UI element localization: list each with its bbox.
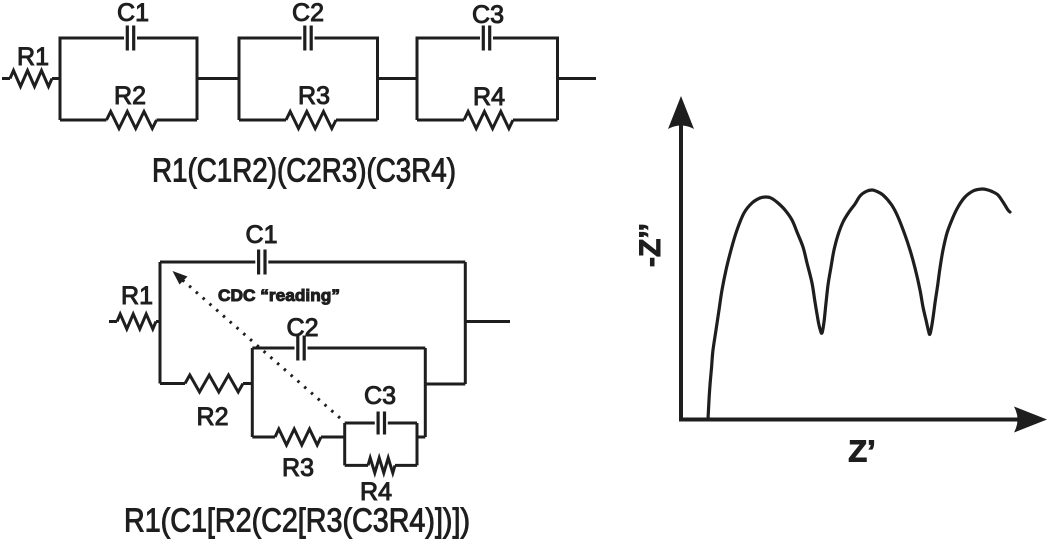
wire: box bottom-left segment xyxy=(60,119,107,122)
svg-text:R1(C1[R2(C2[R3(C3R4)])]): R1(C1[R2(C2[R3(C3R4)])]) xyxy=(124,502,470,539)
svg-text:R3: R3 xyxy=(298,82,330,110)
wire: box3 to box2 right edge connector xyxy=(417,436,425,439)
capacitor C1 xyxy=(126,26,129,51)
wire: box2 to outer right edge connector xyxy=(425,383,465,386)
dotted arrow head xyxy=(173,271,188,285)
wire: box3 top-right segment xyxy=(388,422,417,425)
wire: box2 right edge xyxy=(424,348,427,437)
wire: box1 to box2 xyxy=(197,77,239,80)
wire: outer right edge xyxy=(464,262,467,384)
dotted arrow: CDC reading direction xyxy=(179,277,340,418)
svg-text:R3: R3 xyxy=(282,454,314,482)
wire: R3 to box3 left edge xyxy=(321,436,345,439)
svg-text:Z’: Z’ xyxy=(848,434,876,469)
svg-text:C1: C1 xyxy=(246,221,278,249)
wire: box top-right segment and right edge xyxy=(315,38,378,120)
resistor R3 (bottom circuit) xyxy=(275,429,321,445)
plot y-axis line xyxy=(679,115,683,422)
svg-text:C3: C3 xyxy=(364,382,396,410)
wire: R1 to box1 xyxy=(52,77,60,80)
wire: box bottom-right segment xyxy=(336,119,378,122)
svg-text:CDC “reading”: CDC “reading” xyxy=(218,286,340,305)
wire: box2 left edge xyxy=(251,348,254,437)
wire: R2 to box2 left edge xyxy=(243,382,252,385)
capacitor C2 (bottom circuit) xyxy=(296,336,299,361)
capacitor C3 xyxy=(482,26,485,51)
wire: box bottom-left segment xyxy=(417,119,464,122)
svg-text:-Z’’: -Z’’ xyxy=(634,223,667,267)
svg-text:R1(C1R2)(C2R3)(C3R4): R1(C1R2)(C2R3)(C3R4) xyxy=(152,152,456,189)
resistor R2 (bottom circuit) xyxy=(185,375,243,392)
resistor R4 xyxy=(464,112,513,129)
resistor R4 (bottom circuit) xyxy=(368,458,395,473)
svg-text:R2: R2 xyxy=(114,82,146,110)
capacitor C2 xyxy=(303,26,306,51)
wire: box top-right segment and right edge xyxy=(493,38,558,120)
impedance spectrum curve (three semicircles) xyxy=(708,189,1010,419)
svg-text:C3: C3 xyxy=(472,1,504,29)
wire: box bottom-left segment xyxy=(239,119,286,122)
wire: output lead bottom circuit xyxy=(465,320,510,323)
svg-text:R1: R1 xyxy=(121,282,153,310)
svg-text:C2: C2 xyxy=(287,314,319,342)
wire: input lead left of R1 xyxy=(2,77,10,80)
resistor R2 xyxy=(107,112,157,129)
svg-text:R2: R2 xyxy=(197,403,229,431)
resistor R3 xyxy=(286,112,336,129)
wire: box2 bottom-left segment xyxy=(252,436,275,439)
wire: input lead left of bottom R1 xyxy=(109,320,117,323)
plot x-axis arrow head xyxy=(1014,407,1047,433)
plot x-axis line xyxy=(679,418,1022,422)
wire: box bottom-right segment xyxy=(157,119,198,122)
wire: output lead top circuit xyxy=(558,77,597,80)
svg-text:R4: R4 xyxy=(473,83,505,111)
wire: box3 bottom-left segment xyxy=(345,464,368,467)
wire: outer left edge xyxy=(159,262,162,384)
wire: box3 right edge xyxy=(416,423,419,465)
capacitor C1 (bottom circuit) xyxy=(257,250,260,275)
wire: box left edge and top-left segment (C1||R2 box) xyxy=(60,38,124,120)
resistor R1 (top circuit series input) xyxy=(10,71,52,87)
wire: box3 left edge xyxy=(343,423,346,465)
wire: box2 top-left segment xyxy=(252,347,294,350)
wire: box left edge and top-left segment (C3||R4 box) xyxy=(417,38,480,120)
wire: box2 top-right segment xyxy=(308,347,426,350)
svg-text:C1: C1 xyxy=(117,0,149,27)
capacitor C3 (bottom circuit) xyxy=(377,412,380,435)
wire: box left edge and top-left segment (C2||R3 box) xyxy=(239,38,302,120)
wire: outer top-left segment xyxy=(160,261,255,264)
wire: box3 top-left segment xyxy=(345,422,375,425)
resistor R1 (bottom circuit series input) xyxy=(117,314,156,329)
svg-text:R1: R1 xyxy=(17,43,49,71)
wire: box top-right segment and right edge xyxy=(137,38,197,120)
wire: box3 bottom-right segment xyxy=(395,464,417,467)
wire: bottom R1 to outer left edge xyxy=(156,320,160,323)
wire: box bottom-right segment xyxy=(513,119,558,122)
wire: box2 to box3 xyxy=(378,77,418,80)
plot y-axis arrow head xyxy=(668,96,694,129)
wire: bottom branch left segment xyxy=(160,382,185,385)
wire: outer top-right segment xyxy=(268,261,465,264)
svg-text:C2: C2 xyxy=(292,0,324,27)
